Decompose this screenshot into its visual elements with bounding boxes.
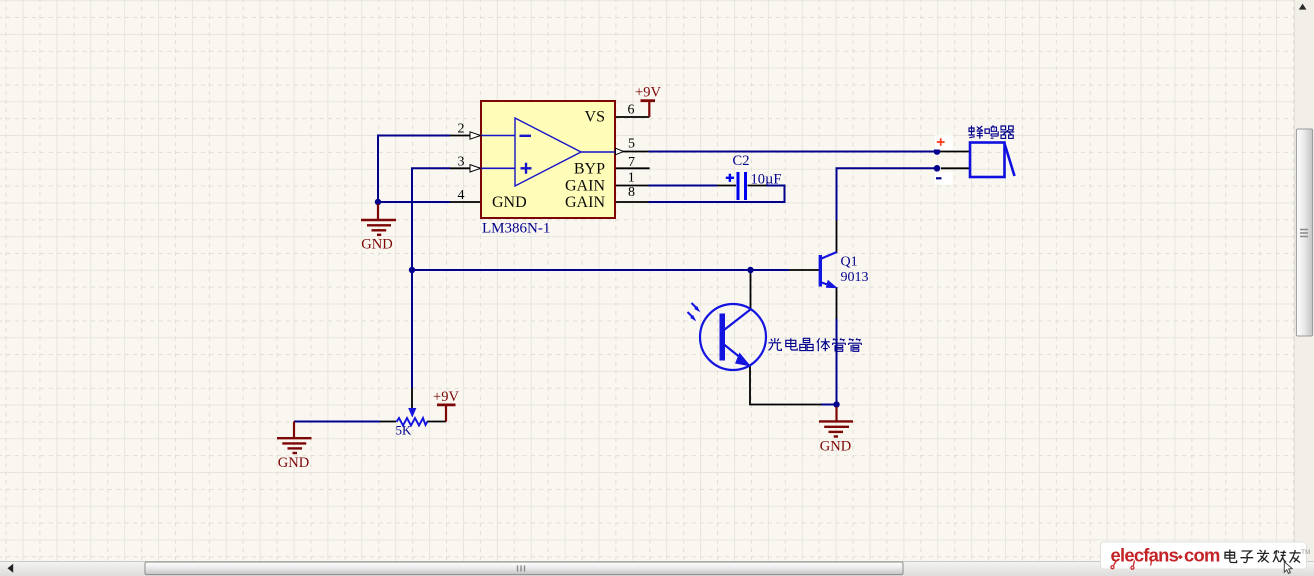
svg-text:7: 7	[628, 155, 635, 170]
Q1 collector lead	[836, 221, 838, 254]
plus input stub	[481, 167, 515, 169]
svg-text:3: 3	[458, 154, 465, 169]
pin 2 input arrow	[470, 132, 481, 139]
pin 5 output arrow	[616, 148, 624, 155]
pot wiper lead	[411, 388, 413, 408]
thumb grip	[518, 566, 525, 572]
pot zigzag	[397, 418, 428, 426]
svg-text:10µF: 10µF	[751, 172, 782, 188]
logo drips	[1111, 561, 1152, 570]
pin 2 lead	[450, 135, 481, 137]
wire pin4 to GND junction	[377, 201, 450, 203]
phototransistor emitter lead	[750, 367, 821, 405]
buzzer minus lead	[941, 167, 970, 169]
svg-text:+9V: +9V	[433, 389, 459, 405]
svg-text:GND: GND	[820, 439, 851, 455]
C2 plates	[737, 172, 740, 200]
Q1 collector stroke	[822, 252, 837, 259]
junction buzzer minus	[934, 165, 941, 172]
pin 3 lead	[450, 167, 481, 169]
svg-text:4: 4	[458, 188, 465, 203]
buzzer diagonal	[1005, 144, 1015, 177]
junction emitter net / GND	[833, 401, 839, 407]
pin 5 lead	[615, 151, 649, 153]
pin 3 input arrow	[470, 165, 481, 172]
plus sign	[521, 163, 532, 174]
wire phototransistor emitter bottom run	[821, 404, 837, 406]
wire pot left to GND corner	[294, 421, 380, 423]
minus mark	[936, 177, 942, 179]
minus input stub	[481, 135, 515, 137]
+9V bar symbol top	[648, 101, 650, 117]
svg-text:+9V: +9V	[635, 85, 661, 101]
svg-text:VS: VS	[585, 109, 605, 126]
photo emitter arrow	[735, 353, 751, 367]
wire pin3 to wiper vertical	[412, 168, 450, 388]
label buzzer 蜂鸣器	[969, 126, 984, 139]
svg-text:GND: GND	[278, 455, 309, 471]
Q1 emitter stroke	[822, 283, 834, 287]
up arrow	[1299, 4, 1307, 10]
plus terminal white field	[935, 135, 953, 149]
svg-text:com: com	[1184, 545, 1220, 566]
buzzer plus lead	[940, 151, 970, 153]
wire pin5 to buzzer +	[649, 151, 938, 153]
svg-text:8: 8	[628, 185, 635, 200]
pot right lead	[427, 421, 446, 423]
left arrow	[8, 564, 14, 573]
svg-text:2: 2	[458, 122, 465, 137]
phototransistor collector lead	[750, 271, 752, 309]
电子发烧友 black script	[1225, 550, 1301, 563]
pin 1 lead	[615, 185, 649, 187]
junction dots	[375, 148, 941, 408]
plus mark	[937, 138, 945, 146]
wire pin1 to C2	[649, 185, 718, 187]
light arrow 2	[688, 312, 694, 318]
vertical thumb	[1296, 129, 1312, 336]
C2 right lead	[748, 185, 768, 187]
light arrow 1	[692, 303, 698, 309]
C2 plus polarity	[726, 174, 734, 182]
wire mid horizontal base net	[412, 269, 789, 271]
svg-text:TM: TM	[1301, 549, 1310, 556]
svg-text:5: 5	[628, 137, 635, 152]
wire Q1 emitter down	[836, 318, 838, 405]
horizontal thumb	[145, 562, 903, 575]
pot wiper arrow	[408, 408, 416, 418]
junction base net / photo collector	[747, 267, 753, 273]
pin 8 lead	[615, 201, 649, 203]
pin 6 lead	[615, 116, 649, 118]
minus terminal white field	[935, 172, 953, 184]
junction wiper net / base net	[409, 267, 415, 273]
minus sign	[520, 135, 532, 137]
pin 7 lead	[615, 167, 650, 169]
photo emitter stroke	[724, 345, 744, 361]
svg-text:BYP: BYP	[574, 161, 605, 178]
svg-text:elecfans: elecfans	[1111, 545, 1179, 566]
wire buzzer minus to Q1 collector	[837, 168, 938, 220]
svg-text:Q1: Q1	[841, 255, 858, 270]
svg-text:GND: GND	[361, 237, 392, 253]
svg-text:C2: C2	[733, 153, 750, 169]
Q1 emitter arrow	[826, 280, 838, 288]
junction pin2/pin4/GND	[375, 199, 381, 205]
black pin/lead segments	[380, 117, 970, 422]
photo collector stroke	[724, 309, 751, 330]
op-amp body	[481, 101, 615, 218]
cursor	[1284, 562, 1292, 574]
pot left lead	[380, 421, 396, 423]
buzzer box	[970, 143, 1005, 178]
photo base bar	[720, 314, 726, 361]
label phototransistor 光电晶体管管	[769, 338, 862, 352]
output stub	[581, 151, 615, 153]
svg-text:GAIN: GAIN	[565, 178, 605, 195]
op-amp triangle	[515, 118, 581, 186]
svg-text:5K: 5K	[396, 423, 413, 438]
svg-text:1: 1	[628, 170, 635, 185]
thumb grip	[1300, 230, 1308, 237]
wire pin2 to left vertical	[378, 136, 450, 202]
svg-text:6: 6	[628, 103, 635, 118]
svg-text:LM386N-1: LM386N-1	[482, 221, 550, 237]
C2 left lead	[717, 185, 736, 187]
svg-text:9013: 9013	[841, 270, 869, 285]
photo circle	[700, 304, 766, 370]
Q1 emitter lead	[836, 287, 838, 319]
wire C2 right plate return to pin8	[649, 186, 785, 203]
Q1 base bar	[819, 255, 822, 287]
svg-text:GND: GND	[492, 194, 527, 211]
junction buzzer plus	[934, 148, 941, 155]
pin 4 lead	[450, 201, 481, 203]
Q1 base lead	[789, 269, 819, 271]
svg-text:GAIN: GAIN	[565, 194, 605, 211]
